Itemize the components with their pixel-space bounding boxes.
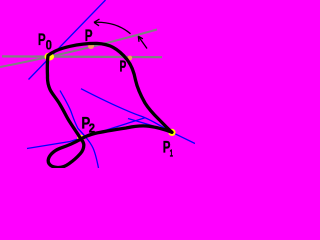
svg-text:P: P bbox=[38, 30, 46, 49]
orange point dot P (upper, on G2) bbox=[88, 43, 94, 49]
curved arrow head bbox=[94, 19, 100, 26]
svg-text:1: 1 bbox=[170, 149, 174, 160]
yellow point dot P1 bbox=[168, 129, 175, 136]
svg-text:P: P bbox=[120, 58, 127, 75]
blue tangent line at P1 bbox=[81, 89, 195, 144]
blue tangent line at P2 (bottom branch) bbox=[27, 118, 145, 149]
curved rotation arrow (top) bbox=[94, 22, 131, 34]
thick black curve (closed, corners at P0 and P1, loop at P2) bbox=[47, 43, 172, 167]
straight arrow head bbox=[138, 36, 143, 42]
blue tangent line at P2 (steep branch) bbox=[60, 91, 99, 169]
gray secant line G1 (horizontal through P0 and P) bbox=[2, 55, 162, 58]
svg-text:0: 0 bbox=[46, 37, 52, 53]
blue tangent segment near P1 (lower) bbox=[128, 119, 169, 131]
straight arrow pointing at gray line G2 bbox=[138, 36, 147, 48]
blue tangent line at P0 bbox=[29, 0, 106, 80]
orange point dot P (lower, on G1) bbox=[127, 56, 132, 61]
gray secant line G2 (sloped through P0 and P) bbox=[0, 30, 157, 68]
svg-text:2: 2 bbox=[89, 120, 95, 135]
yellow point dot P2 bbox=[77, 135, 84, 142]
yellow point dot P0 bbox=[45, 53, 55, 61]
svg-text:P: P bbox=[85, 26, 93, 45]
